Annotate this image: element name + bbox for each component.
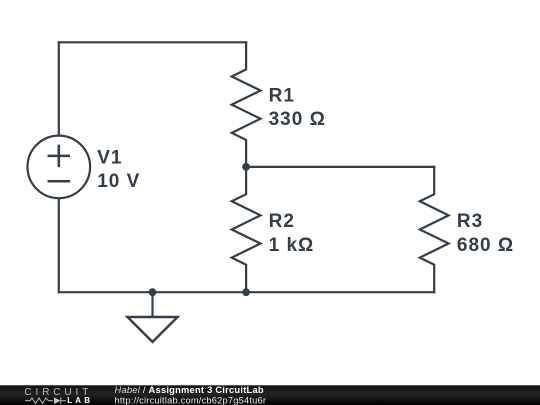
V1 minus sign	[49, 180, 69, 183]
svg-text:10 V: 10 V	[97, 171, 140, 192]
svg-text:V1: V1	[97, 148, 122, 169]
wire top horizontal	[59, 41, 246, 43]
label V1 value	[97, 85, 514, 256]
logo diode triangle	[54, 397, 61, 404]
svg-text:http://circuitlab.com/cb62p7g5: http://circuitlab.com/cb62p7g54tu6r	[115, 395, 267, 405]
wire middle horizontal (node between R1,R2,R3)	[246, 166, 434, 168]
svg-text:330 Ω: 330 Ω	[269, 109, 326, 130]
voltage source V1 circle	[28, 136, 91, 199]
ground triangle	[128, 317, 178, 342]
svg-text:R1: R1	[269, 85, 295, 106]
resistor R3	[420, 167, 449, 292]
wire left vertical upper (V1 top lead)	[58, 42, 60, 135]
svg-text:R2: R2	[269, 211, 295, 232]
resistor R1	[232, 42, 261, 167]
ground stub wire	[151, 292, 153, 317]
svg-text:1 kΩ: 1 kΩ	[269, 235, 315, 256]
resistor R2	[232, 167, 261, 292]
node A junction dot (R1/R2/middle wire)	[242, 163, 250, 171]
V1 plus sign	[49, 146, 69, 166]
svg-text:680 Ω: 680 Ω	[457, 235, 514, 256]
svg-text:LAB: LAB	[67, 396, 93, 405]
wire bottom horizontal	[59, 291, 434, 293]
svg-text:Habel / Assignment 3 CircuitLa: Habel / Assignment 3 CircuitLab	[115, 385, 264, 395]
wire left vertical lower (V1 bottom lead)	[58, 198, 60, 292]
node B junction dot (bottom, R2)	[242, 288, 250, 296]
svg-text:R3: R3	[457, 211, 483, 232]
CircuitLab logo: resistor-diode squiggle	[25, 397, 66, 404]
ground junction dot	[149, 288, 157, 296]
